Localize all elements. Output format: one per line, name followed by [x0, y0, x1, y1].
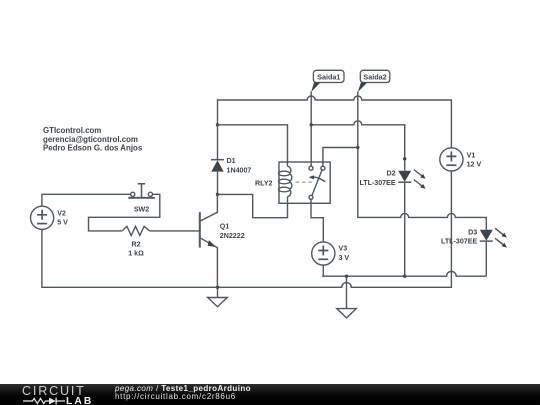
wire relay common to V3+	[311, 199, 323, 242]
wire V2+ top lead to SW2	[42, 194, 131, 206]
node D1-cathode rail junction	[216, 123, 219, 126]
svg-text:Q1: Q1	[220, 222, 230, 230]
node emitter ground junction	[216, 286, 219, 289]
node Saida1 junction	[310, 123, 313, 126]
net flag Saida2	[358, 70, 390, 92]
wire Saida1 node to D2 anode (hops over Saida2 drop)	[311, 121, 405, 171]
wire rail to relay coil top	[218, 125, 288, 162]
svg-text:GTIcontrol.com: GTIcontrol.com	[43, 126, 101, 135]
wire node A rail (V3 to D3 cathode, hop over V1 lead)	[322, 271, 486, 276]
wire R2 to Q1 base	[150, 230, 200, 232]
ground (lower, below node A)	[337, 276, 356, 318]
svg-text:2N2222: 2N2222	[220, 232, 245, 240]
resistor R2	[122, 226, 149, 235]
svg-text:RLY2: RLY2	[255, 180, 273, 188]
wire Q1 collector to D1 anode	[217, 172, 219, 195]
svg-text:SW2: SW2	[134, 205, 149, 213]
wire D3 cathode to node A rail	[485, 241, 487, 276]
ground (left, below Q1 emitter)	[208, 287, 228, 306]
wire collector node to relay coil bottom	[218, 194, 288, 217]
wire relay NC contact to Saida2 drop	[323, 148, 358, 167]
wire V1- down to ground rail and left to V2- (hop over ground stub)	[42, 171, 452, 287]
wire D2 cathode to node A	[404, 182, 406, 276]
svg-text:gerencia@gticontrol.com: gerencia@gticontrol.com	[43, 135, 138, 144]
node collector-coil junction	[216, 193, 219, 196]
svg-text:LTL-307EE: LTL-307EE	[441, 238, 477, 246]
svg-text:R2: R2	[131, 240, 140, 248]
svg-text:Saida2: Saida2	[363, 72, 386, 81]
svg-text:1 kΩ: 1 kΩ	[128, 250, 144, 258]
node ground stub junction	[345, 275, 348, 278]
svg-text:D2: D2	[387, 170, 396, 178]
svg-text:V3: V3	[339, 245, 348, 253]
svg-text:12 V: 12 V	[467, 161, 482, 169]
svg-text:5 V: 5 V	[57, 219, 68, 227]
svg-text:D1: D1	[227, 157, 236, 165]
svg-text:Pedro Edson G. dos Anjos: Pedro Edson G. dos Anjos	[43, 144, 143, 153]
CircuitLab logo wordmark	[22, 384, 86, 398]
transistor Q1	[200, 194, 218, 287]
pushbutton SW2	[128, 184, 155, 198]
svg-text:V2: V2	[57, 209, 66, 217]
node D2 lead dot	[403, 157, 406, 160]
wire V3- to ground node A	[322, 265, 323, 276]
svg-text:V1: V1	[467, 151, 476, 159]
LED D3 LTL-307EE	[480, 228, 507, 247]
voltage source V1	[440, 148, 463, 171]
voltage source V2	[30, 206, 53, 229]
svg-text:1N4007: 1N4007	[227, 166, 252, 174]
net flag Saida1	[311, 70, 344, 92]
svg-text:Saida1: Saida1	[317, 72, 340, 81]
svg-text:D3: D3	[468, 229, 477, 237]
diode D1 1N4007	[211, 160, 224, 172]
svg-text:LTL-307EE: LTL-307EE	[359, 179, 395, 187]
node Saida2 relay junction	[356, 146, 359, 149]
svg-text:3 V: 3 V	[339, 254, 350, 262]
wire Saida1 drop to relay terminal	[310, 92, 312, 167]
relay RLY2	[279, 162, 331, 203]
logo schematic squiggle	[23, 396, 65, 405]
wire Saida2 drop to D3 feed (hops over D2 and V1 leads)	[358, 92, 487, 230]
annotation text block	[43, 126, 143, 152]
wire SW2 to R2	[89, 194, 160, 231]
LED D2 LTL-307EE	[398, 170, 425, 189]
wire D1 cathode to top rail to V1+ (hops over Saida1 and Saida2 drops)	[218, 96, 452, 160]
voltage source V3	[312, 242, 335, 265]
node D2 cathode junction	[403, 275, 406, 278]
